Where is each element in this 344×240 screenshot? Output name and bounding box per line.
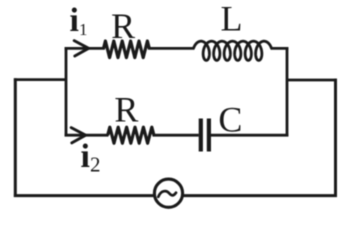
wire: top branch between R and L <box>149 47 195 50</box>
arrow i2 direction <box>71 128 85 143</box>
wire: right stub <box>287 79 337 82</box>
svg-text:i2: i2 <box>81 138 101 177</box>
resistor R (middle branch) <box>108 127 154 143</box>
wire: middle branch between R and C <box>153 134 199 137</box>
wire: top branch left segment <box>65 47 105 50</box>
wire: left stub <box>14 78 66 81</box>
AC source sine symbol <box>158 191 176 197</box>
wire: right outer vertical <box>334 79 337 197</box>
wire: left outer vertical <box>14 78 17 197</box>
svg-text:C: C <box>218 99 242 139</box>
inductor L <box>194 41 272 60</box>
AC source circle <box>154 179 182 207</box>
svg-text:i1: i1 <box>70 2 88 39</box>
resistor R (top branch) <box>103 41 149 58</box>
svg-text:R: R <box>114 89 138 129</box>
wire: right inner vertical <box>286 47 289 136</box>
wire: left inner vertical (node A to node B) <box>65 47 68 136</box>
capacitor C plate right <box>207 119 211 152</box>
svg-text:L: L <box>221 0 243 38</box>
wire: middle branch right segment <box>211 134 288 137</box>
capacitor C plate left <box>199 119 203 152</box>
svg-text:R: R <box>111 6 135 46</box>
arrow i1 direction <box>74 41 88 56</box>
wire: bottom segment <box>14 194 337 197</box>
wire: middle branch left segment <box>65 134 109 137</box>
wire: top branch right segment to corner <box>271 47 289 50</box>
